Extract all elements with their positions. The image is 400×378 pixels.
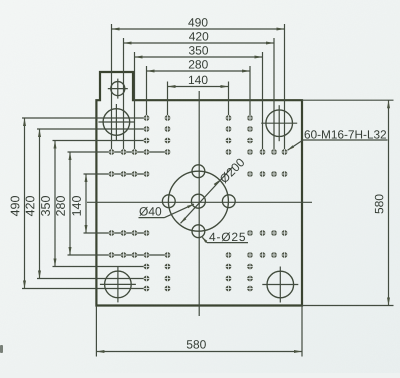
- M16 tapped hole BR-7: [226, 276, 232, 282]
- extension line column x=123.5: [123, 38, 125, 152]
- M16 tapped hole TL-6: [165, 115, 171, 121]
- dimension 490 top: [112, 18, 285, 30]
- M16 tapped hole BR-14: [271, 230, 277, 236]
- M16 tapped hole BL-8: [165, 264, 171, 270]
- M16 tapped hole BR-15: [260, 230, 266, 236]
- M16 tapped hole BR-11: [271, 252, 277, 258]
- label D40 with leader: [139, 204, 195, 218]
- M16 tapped hole BR-2: [247, 276, 253, 282]
- extension line column x=262.5: [262, 52, 264, 152]
- dimension 140 left: [72, 174, 87, 233]
- M16 tapped hole BL-6: [165, 286, 171, 292]
- hole D25 left: [162, 195, 175, 208]
- extension line column x=146.5: [146, 66, 148, 118]
- label 4-D25 with leader: [202, 232, 248, 242]
- tie-bar hole top-right: [261, 105, 297, 141]
- M16 tapped hole TL-3: [144, 138, 150, 144]
- vertical centerline: [198, 91, 200, 316]
- M16 tapped hole BL-3: [144, 264, 150, 270]
- M16 tapped hole TR-7: [226, 126, 232, 132]
- M16 tapped hole BL-11: [121, 252, 127, 258]
- M16 tapped hole BR-6: [226, 286, 232, 292]
- tie-bar hole bottom-right: [262, 267, 298, 303]
- dimension 420 top: [124, 32, 275, 44]
- M16 tapped hole TL-2: [144, 126, 150, 132]
- label D200 with diameter leader: [181, 157, 246, 223]
- M16 tapped hole BL-12: [132, 252, 138, 258]
- label 60-M16-7H-L32 with leader: [288, 130, 388, 150]
- dimension 280 left: [56, 152, 71, 255]
- extension line row y=278.5: [37, 278, 147, 280]
- extension line row y=118.0: [22, 117, 147, 119]
- M16 tapped hole BL-7: [165, 276, 171, 282]
- M16 tapped hole TR-10: [282, 149, 288, 155]
- M16 tapped hole BL-10: [109, 252, 115, 258]
- M16 tapped hole TL-11: [121, 149, 127, 155]
- M16 tapped hole BR-13: [282, 230, 288, 236]
- M16 tapped hole TR-12: [260, 149, 266, 155]
- M16 tapped hole TR-1: [247, 115, 253, 121]
- M16 tapped hole TL-13: [109, 171, 115, 177]
- extension line row y=152: [68, 151, 168, 153]
- dimension 140 top: [168, 76, 229, 88]
- M16 tapped hole TR-8: [226, 138, 232, 144]
- extension line bottom edge right: [302, 305, 394, 307]
- M16 tapped hole TR-14: [271, 171, 277, 177]
- M16 tapped hole TR-3: [247, 138, 253, 144]
- M16 tapped hole TL-10: [109, 149, 115, 155]
- dimension 280 top: [147, 60, 251, 72]
- tie-bar hole top-left: [98, 104, 134, 140]
- M16 tapped hole TR-9: [226, 149, 232, 155]
- M16 tapped hole TL-1: [144, 115, 150, 121]
- extension line column x=284.5: [284, 24, 286, 152]
- M16 tapped hole BR-9: [226, 252, 232, 258]
- hole D25 top: [192, 165, 205, 178]
- M16 tapped hole TL-8: [165, 138, 171, 144]
- extension line row y=129: [37, 128, 147, 130]
- extension line column x=167.5: [167, 82, 169, 119]
- M16 tapped hole BL-15: [132, 230, 138, 236]
- extension line row y=174: [84, 173, 147, 175]
- M16 tapped hole TL-14: [121, 171, 127, 177]
- M16 tapped hole TR-11: [271, 149, 277, 155]
- M16 tapped hole BL-1: [144, 286, 150, 292]
- extension line row y=288.5: [22, 288, 147, 290]
- hole D25 bottom: [192, 225, 205, 238]
- M16 tapped hole BR-4: [247, 252, 253, 258]
- tab small hole: [108, 79, 128, 99]
- M16 tapped hole TR-13: [282, 171, 288, 177]
- horizontal centerline: [87, 201, 312, 203]
- extension line row y=233: [84, 232, 147, 234]
- M16 tapped hole BR-10: [282, 252, 288, 258]
- extension line column x=274: [273, 38, 275, 152]
- bolt circle D200: [168, 171, 228, 231]
- tie-bar hole bottom-left: [100, 266, 136, 302]
- dimension 580 right: [375, 100, 390, 305]
- M16 tapped hole BL-14: [121, 230, 127, 236]
- M16 tapped hole TL-5: [144, 171, 150, 177]
- extension line column x=228.5: [228, 82, 230, 119]
- M16 tapped hole TR-2: [247, 126, 253, 132]
- M16 tapped hole BL-13: [109, 230, 115, 236]
- extension line column x=134.5: [134, 52, 136, 152]
- M16 tapped hole BL-9: [165, 252, 171, 258]
- M16 tapped hole TR-4: [247, 149, 253, 155]
- M16 tapped hole BR-5: [247, 230, 253, 236]
- extension line top edge right: [302, 99, 394, 101]
- M16 tapped hole TR-6: [226, 115, 232, 121]
- extension line row y=255: [68, 254, 168, 256]
- M16 tapped hole TL-12: [132, 149, 138, 155]
- M16 tapped hole BL-4: [144, 252, 150, 258]
- M16 tapped hole TL-9: [165, 149, 171, 155]
- M16 tapped hole TL-15: [132, 171, 138, 177]
- extension line left edge bottom: [95, 306, 97, 357]
- M16 tapped hole BL-2: [144, 276, 150, 282]
- M16 tapped hole TL-4: [144, 149, 150, 155]
- dimension 490 left: [11, 118, 26, 289]
- dimension 580 bottom: [96, 340, 302, 353]
- center hole D40: [191, 194, 205, 208]
- M16 tapped hole BR-1: [247, 286, 253, 292]
- extension line right edge bottom: [301, 306, 303, 357]
- scan smudge left edge: [0, 345, 3, 353]
- extension line column x=111.5: [111, 24, 113, 152]
- M16 tapped hole BL-5: [144, 230, 150, 236]
- M16 tapped hole TR-5: [247, 171, 253, 177]
- extension line row y=140.5: [53, 140, 147, 142]
- dimension 350 top: [135, 46, 263, 58]
- M16 tapped hole BR-12: [260, 252, 266, 258]
- M16 tapped hole BR-3: [247, 264, 253, 270]
- platen body outline with top-left tab: [96, 72, 302, 306]
- M16 tapped hole TL-7: [165, 126, 171, 132]
- extension line column x=250: [249, 66, 251, 118]
- M16 tapped hole BR-8: [226, 264, 232, 270]
- dimension 420 left: [26, 129, 41, 279]
- extension line row y=266.5: [53, 266, 147, 268]
- M16 tapped hole TR-15: [260, 171, 266, 177]
- hole D25 right: [222, 195, 235, 208]
- dimension 350 left: [41, 141, 56, 267]
